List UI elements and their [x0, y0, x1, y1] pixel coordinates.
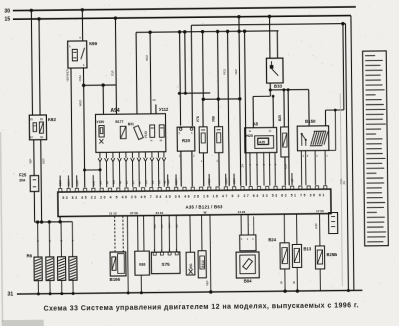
wire rail15 to B33 — [269, 16, 271, 58]
unit H25 — [245, 127, 277, 152]
svg-text:А8: А8 — [253, 121, 259, 126]
label B13 — [303, 246, 311, 251]
label 31 — [7, 292, 13, 298]
svg-text:ЧЕР: ЧЕР — [28, 158, 32, 164]
feed bus y99 — [203, 98, 240, 100]
B13 ground wire — [292, 267, 298, 291]
wire busB to Y78 — [202, 32, 205, 100]
node r6 bus 48 — [48, 220, 51, 223]
svg-text:БЕЛ: БЕЛ — [174, 179, 178, 185]
B25B ground wire — [319, 269, 321, 291]
valve Y112 body — [159, 125, 164, 143]
svg-text:15: 15 — [4, 17, 10, 23]
wire to B13 — [296, 214, 298, 244]
svg-text:К/Б: К/Б — [91, 181, 95, 186]
svg-text:В13: В13 — [303, 246, 311, 251]
ECU A35/B121/B63 — [58, 189, 331, 216]
svg-text:2Ч: 2Ч — [241, 164, 245, 168]
svg-text:R20: R20 — [182, 138, 191, 143]
bus B right corner to B33 — [276, 31, 278, 58]
wire dist to ECU — [283, 90, 290, 186]
wire label x117 — [110, 70, 114, 76]
connector X51 — [186, 252, 195, 275]
wire B150 to busA — [325, 24, 345, 126]
wire past B166 to ground — [126, 216, 130, 295]
bus A (upper right feed) — [191, 24, 348, 293]
node x240 y99 — [238, 97, 241, 100]
svg-text:БЕЛ: БЕЛ — [154, 224, 156, 229]
bus B junction Y88 — [216, 30, 219, 33]
connector X88 — [135, 251, 150, 275]
label K92 — [48, 117, 56, 122]
R6 plug wires — [36, 222, 75, 257]
switch S75 — [151, 249, 180, 274]
wire K99 left pin down — [71, 68, 72, 188]
svg-text:ЧЕР: ЧЕР — [234, 69, 238, 75]
sensor B31 — [128, 122, 143, 139]
svg-text:57 58: 57 58 — [130, 211, 138, 215]
ECU stub wires — [58, 173, 294, 188]
bus B junction Y78 — [201, 30, 204, 33]
svg-text:2Ч: 2Ч — [342, 181, 346, 185]
unit A94 box — [95, 114, 165, 153]
label B84 — [244, 279, 252, 284]
sensor B24 — [280, 243, 289, 269]
svg-text:РОЗ: РОЗ — [222, 69, 226, 75]
svg-text:БЕЛ: БЕЛ — [41, 158, 45, 163]
distribution wire y90 — [270, 89, 308, 91]
junction rail15/B33 — [268, 15, 271, 18]
injector Y88 — [211, 116, 222, 153]
label K99 — [89, 41, 97, 46]
legend box — [363, 51, 389, 246]
svg-text:СИН: СИН — [162, 223, 164, 228]
svg-text:3Ж: 3Ж — [111, 180, 115, 185]
svg-text:17 55: 17 55 — [316, 209, 324, 213]
wire down to A94 pin — [102, 85, 104, 114]
svg-text:СИН: СИН — [78, 75, 82, 81]
A94 bottom pin wires — [98, 152, 166, 188]
svg-text:30А: 30А — [19, 178, 26, 182]
power rail 15 — [13, 16, 354, 295]
node jog a — [83, 169, 86, 172]
ECU bottom pin numbers — [109, 209, 324, 215]
svg-text:У150: У150 — [96, 120, 104, 124]
label B25B — [326, 252, 337, 257]
scan edge bottom left — [2, 320, 44, 326]
wire B33 elbow to H25 left — [253, 96, 271, 127]
svg-text:ГОЛ: ГОЛ — [207, 179, 211, 185]
wire ECU to R6 bus — [59, 217, 61, 222]
scan fold line — [340, 93, 342, 286]
svg-text:А35 / В121 / В63: А35 / В121 / В63 — [185, 204, 223, 209]
svg-text:В166: В166 — [110, 277, 121, 282]
bus label 30 — [4, 8, 10, 14]
label B33 — [274, 84, 283, 89]
wire rail15 x240 to ECU — [233, 17, 240, 186]
svg-text:В25: В25 — [278, 115, 282, 121]
wire K92 right down — [40, 140, 43, 222]
R20 pin1 wire — [179, 151, 181, 186]
wire busB x186 — [183, 30, 187, 93]
sensor B25B — [315, 246, 324, 269]
label B166 — [110, 277, 121, 282]
node B13 ground — [296, 289, 299, 292]
junction rail30/K92 — [30, 9, 33, 12]
svg-text:5Г: 5Г — [137, 180, 141, 184]
X88 ground — [140, 275, 143, 294]
wire junction to x117 — [84, 84, 116, 86]
node dist ECU — [287, 88, 290, 91]
svg-text:3Ч: 3Ч — [144, 180, 148, 184]
sensor B25 — [278, 115, 289, 157]
wire label K92a — [28, 158, 32, 164]
wire rail30 to K99 — [81, 10, 83, 41]
sensor B112 — [198, 251, 206, 278]
ECU connector terminal row — [59, 186, 327, 192]
sensor B33 — [266, 58, 283, 83]
wire W to ground bus — [205, 215, 211, 292]
pin labels H25 — [249, 130, 272, 133]
bus A corner left drop to R20 — [191, 25, 192, 126]
pin 4 K99 — [79, 36, 81, 40]
svg-text:В33: В33 — [274, 84, 283, 89]
suppression resistors R6 set — [34, 257, 77, 281]
wire busB x229 to ECU — [222, 31, 229, 186]
wire x117 down to A94 — [115, 85, 117, 114]
node dist B25 — [282, 88, 285, 91]
svg-text:W: W — [204, 210, 207, 214]
svg-text:В84: В84 — [244, 279, 252, 284]
wire busB x246 to ECU — [239, 29, 248, 185]
node A94 feed — [101, 83, 104, 86]
svg-text:30: 30 — [4, 8, 10, 14]
svg-text:У78: У78 — [196, 116, 200, 122]
svg-text:Н25: Н25 — [246, 134, 253, 138]
svg-text:СИН: СИН — [67, 179, 71, 186]
wire H25 right top — [272, 95, 275, 128]
junction busB R20 — [178, 30, 181, 33]
H25 bottom wires — [250, 152, 278, 185]
node B24 ground — [283, 289, 286, 292]
svg-text:Х88: Х88 — [139, 262, 146, 266]
label F25 — [19, 172, 27, 182]
wire B33 bottom — [269, 83, 271, 96]
svg-text:Х51: Х51 — [189, 263, 193, 269]
power rail 30 — [13, 7, 356, 11]
wires to S75 — [154, 215, 178, 252]
svg-text:ЖЕЛ: ЖЕЛ — [169, 223, 171, 229]
wire dist to B150 — [308, 90, 310, 126]
bus label 15 — [4, 17, 10, 23]
bus B junction x240 — [237, 30, 240, 33]
B150 bottom wires — [301, 150, 328, 185]
valve Y150 — [96, 120, 104, 144]
junction rail15/x240 — [237, 15, 240, 18]
svg-text:ЗЕЛ: ЗЕЛ — [232, 178, 236, 184]
node W ground — [209, 290, 212, 293]
svg-text:СЕР: СЕР — [75, 180, 79, 186]
relay K99 — [68, 41, 87, 68]
resistor block R20 — [177, 127, 195, 151]
R6 ground wires — [37, 280, 75, 295]
label A94 — [110, 108, 119, 114]
shielded wires to B166 — [115, 216, 124, 252]
wire to B112 — [201, 215, 203, 251]
svg-text:ЧЕР: ЧЕР — [166, 179, 170, 185]
node bus31/busA — [347, 289, 350, 292]
svg-text:Ч/Б: Ч/Б — [290, 179, 294, 184]
ground bus 31 — [17, 290, 362, 294]
svg-text:4К: 4К — [118, 181, 122, 185]
svg-text:К92: К92 — [48, 117, 56, 122]
junction rail30/K99 feed — [81, 8, 84, 11]
Y78 bottom wire — [201, 153, 204, 186]
label B24 — [268, 237, 276, 242]
wire K99 right pin down — [82, 68, 84, 85]
sensor B177 — [115, 120, 126, 139]
svg-text:ЧЕР/БЕЛ: ЧЕР/БЕЛ — [65, 69, 69, 81]
svg-text:У132: У132 — [143, 131, 147, 138]
relay K92 — [29, 115, 46, 140]
wire rail15 to K92 — [39, 19, 40, 115]
B25 bottom wire — [284, 157, 286, 185]
connector X diagnostic — [329, 213, 338, 234]
svg-text:В177: В177 — [115, 120, 123, 124]
svg-text:В24: В24 — [268, 237, 276, 242]
svg-text:2З: 2З — [131, 181, 135, 185]
Y88 bottom wire — [216, 153, 219, 186]
wire label K99b — [78, 75, 82, 81]
node R6 bus feed — [58, 220, 61, 223]
svg-text:В150: В150 — [305, 119, 316, 124]
svg-text:В31: В31 — [128, 122, 134, 126]
svg-text:2Ч: 2Ч — [98, 181, 102, 185]
wire to B24 — [283, 214, 285, 243]
bus B left corner to A94 — [135, 32, 138, 114]
sensor B84 — [236, 252, 259, 278]
svg-text:14 23: 14 23 — [238, 210, 246, 214]
wire to Y78 top — [202, 99, 204, 127]
wire busB to R20 — [180, 32, 181, 126]
node B33 dist — [269, 88, 272, 91]
node r6 bus 41 — [40, 220, 43, 223]
valve Y132 — [143, 125, 154, 143]
svg-text:F25: F25 — [19, 172, 27, 177]
svg-text:ЧЕР: ЧЕР — [205, 280, 209, 286]
wires to X88 — [138, 216, 144, 252]
svg-text:А35: А35 — [259, 140, 265, 144]
svg-text:КОР: КОР — [314, 223, 318, 229]
connector of B84 — [240, 235, 256, 251]
svg-text:К99: К99 — [89, 41, 97, 46]
wire busB to Y88 — [218, 32, 219, 127]
node y88 cross — [217, 97, 220, 100]
svg-text:А94: А94 — [110, 108, 119, 114]
wire F25 to R6 bus — [33, 191, 35, 222]
wire rail30 to K92 — [31, 10, 32, 115]
scan edge left — [0, 132, 3, 322]
node K99/A94 junction — [82, 84, 85, 87]
svg-text:Н: Н — [150, 139, 152, 143]
caption — [44, 302, 359, 312]
injector Y78 — [196, 116, 207, 153]
svg-text:1Б: 1Б — [105, 181, 109, 185]
svg-text:11 12: 11 12 — [109, 211, 117, 215]
svg-text:2Б: 2Б — [157, 180, 161, 184]
svg-text:СЕР: СЕР — [176, 223, 178, 228]
svg-text:34 16: 34 16 — [156, 211, 164, 215]
node r6 bus 37 — [36, 220, 39, 223]
wire to B25B — [314, 214, 320, 246]
R20 pin2 wire — [192, 151, 196, 186]
svg-text:У88: У88 — [211, 116, 215, 122]
svg-text:ЗЕЛ: ЗЕЛ — [58, 180, 62, 186]
bus B junction x229 — [226, 30, 229, 33]
wire junction down to ECU — [84, 85, 85, 187]
svg-text:S75: S75 — [161, 262, 170, 267]
svg-text:БЕЛ: БЕЛ — [224, 178, 228, 184]
bus B (component feed) — [136, 31, 278, 33]
node y78 feed — [202, 98, 205, 101]
svg-text:У112: У112 — [159, 107, 169, 112]
svg-text:3б: 3б — [279, 281, 283, 285]
svg-text:В25Б: В25Б — [326, 252, 337, 257]
svg-text:13: 13 — [152, 98, 156, 102]
wire label x84 — [78, 100, 82, 106]
knock sensor B166 — [110, 252, 126, 276]
jog wire — [85, 169, 100, 171]
wire label K99a — [65, 69, 69, 81]
R6 supply bus — [35, 221, 73, 223]
svg-text:31: 31 — [7, 292, 13, 298]
node jog b — [99, 168, 102, 171]
svg-text:R6: R6 — [26, 253, 32, 258]
A94 wire labels — [98, 179, 166, 184]
B24 ground wire — [279, 269, 285, 291]
bus A junction B150 branch — [341, 22, 344, 25]
label R6 — [26, 253, 32, 258]
wire x117 up to rail 15 — [114, 18, 117, 85]
wire A94 pin13a — [145, 31, 153, 114]
svg-text:1К: 1К — [150, 180, 154, 184]
wires ECU to B84 — [241, 214, 254, 235]
feed jog H1 — [178, 91, 210, 94]
svg-text:ЖЕЛ: ЖЕЛ — [78, 100, 82, 106]
junction rail15/K92 — [37, 17, 40, 20]
wire label K92b — [41, 158, 45, 163]
fuse F25 — [30, 176, 39, 192]
junction rail15/relay wire — [114, 16, 117, 19]
label B150 — [305, 119, 316, 124]
wire K92 to fuse F25 — [33, 140, 35, 176]
wire to X51 — [189, 215, 191, 252]
wire A94 pin13b — [155, 104, 157, 113]
wire dist to B25 — [283, 90, 285, 127]
label Y112 — [159, 107, 169, 112]
svg-text:ГОЛ: ГОЛ — [110, 70, 114, 76]
wire B150 right to riser — [328, 109, 346, 185]
label A8 — [253, 121, 259, 126]
svg-text:БЕЛ: БЕЛ — [145, 55, 149, 61]
pin 13 label — [152, 98, 156, 102]
sensor B13 — [292, 244, 301, 267]
lambda sensor B150 — [297, 126, 329, 151]
